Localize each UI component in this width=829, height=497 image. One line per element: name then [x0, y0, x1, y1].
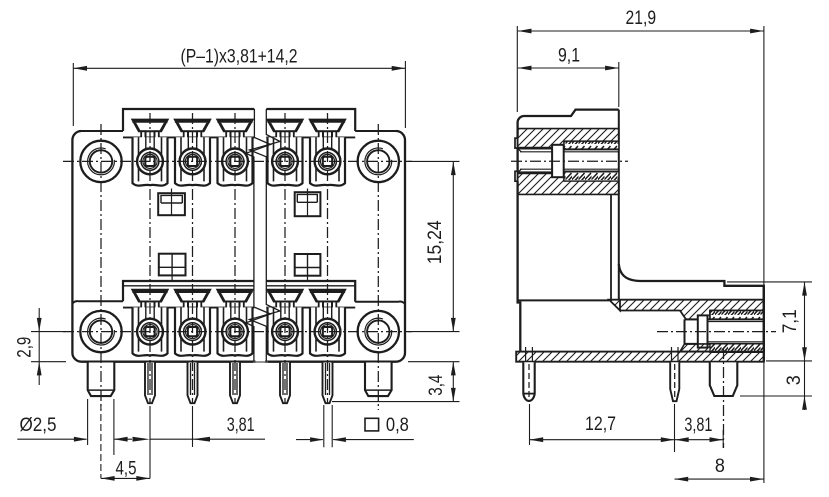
svg-text:8: 8	[715, 455, 725, 477]
front body outline	[72, 131, 405, 362]
side center lines	[511, 161, 776, 448]
mounting hole top left	[80, 141, 121, 182]
dimension 15,24	[408, 161, 460, 331]
break gap white	[256, 100, 266, 390]
side body main outline	[518, 110, 619, 122]
keying rectangle lower left	[159, 254, 186, 281]
upper contact box	[552, 145, 564, 177]
svg-text:Ø2,5: Ø2,5	[20, 414, 57, 436]
terminal pole 3 bottom row	[217, 290, 252, 356]
upper bore sleeve lines	[520, 152, 619, 169]
dimension 3,81 side	[675, 414, 723, 448]
svg-text:0,8: 0,8	[386, 414, 409, 436]
dimension 3,4	[332, 362, 460, 402]
terminal pole 2 top row	[175, 120, 210, 186]
terminal pole 1 top row	[132, 120, 167, 186]
bend curve to arm	[619, 264, 764, 352]
flange top edge line	[79, 130, 398, 132]
solder pin 4	[280, 363, 290, 404]
raised center section top row	[123, 109, 355, 131]
terminal pole 2 bottom row	[175, 290, 210, 356]
svg-text:12,7: 12,7	[585, 413, 616, 435]
solder pin 5	[323, 363, 333, 404]
svg-text:2,9: 2,9	[13, 337, 35, 358]
dimension (P-1)x3,81+14,2	[73, 45, 405, 128]
keying rectangle lower right	[295, 254, 321, 281]
solder pin 2	[188, 363, 198, 404]
upper socket hatch bottom	[518, 173, 619, 194]
arm contact box	[698, 315, 708, 347]
dimension 21,9	[517, 7, 764, 483]
upper thread band	[564, 141, 619, 149]
dimension square 0,8	[296, 405, 414, 447]
svg-text:3,81: 3,81	[684, 414, 712, 436]
mounting peg right	[365, 363, 392, 397]
dimension 12,7	[530, 404, 675, 452]
dimension O2,5	[17, 399, 132, 455]
terminal pole 1 bottom row	[132, 290, 167, 356]
pole body top line row1	[123, 136, 355, 138]
svg-text:9,1: 9,1	[558, 44, 580, 66]
left mating face	[518, 122, 521, 352]
ledge line	[518, 299, 609, 301]
arm right edge	[763, 286, 765, 362]
arm thread top	[710, 311, 764, 320]
inner wall	[610, 194, 612, 299]
left face tabs	[515, 138, 518, 148]
bottom edge thin connector across break	[253, 361, 268, 363]
pole body top line row2	[123, 307, 355, 309]
side peg	[710, 362, 738, 396]
break line left	[246, 109, 271, 362]
svg-text:3,81: 3,81	[227, 414, 255, 436]
svg-text:15,24: 15,24	[424, 220, 446, 264]
arm hatch top	[609, 300, 764, 320]
arm bore edges	[685, 319, 764, 344]
mounting hole bottom right	[358, 311, 399, 352]
svg-text:3: 3	[783, 375, 805, 385]
dimension 9,1	[518, 44, 619, 107]
keying rectangle upper right	[295, 189, 321, 217]
svg-text:4,5: 4,5	[116, 457, 137, 479]
center lines front view	[63, 113, 412, 410]
solder pin 1	[145, 363, 155, 404]
arm hatch bottom	[680, 344, 712, 352]
svg-text:7,1: 7,1	[779, 309, 801, 333]
upper bore entry chamfers	[518, 149, 522, 172]
upper socket hatch top	[518, 129, 619, 148]
dimension 8	[675, 455, 764, 482]
svg-text:21,9: 21,9	[626, 7, 657, 29]
break line right	[250, 109, 281, 362]
terminal pole 4 top row	[267, 120, 302, 186]
base plate	[516, 352, 764, 362]
arm mouth	[684, 319, 686, 344]
terminal pole 4 bottom row	[267, 290, 302, 356]
dimension 3 side	[740, 361, 812, 410]
svg-text:3,4: 3,4	[425, 375, 447, 396]
upper thread band bottom	[564, 172, 619, 182]
side pin row1	[523, 347, 534, 401]
arm bore sleeve lines	[708, 322, 764, 342]
dimension 2,9	[13, 308, 66, 385]
solder pin 3	[230, 363, 240, 404]
svg-text:(P–1)x3,81+14,2: (P–1)x3,81+14,2	[181, 45, 298, 67]
arm thread bottom	[710, 344, 764, 352]
lower flange ledge	[72, 301, 405, 304]
lower center section top lines	[123, 281, 355, 302]
dimension 3,81 front	[133, 406, 266, 447]
terminal pole 3 top row	[217, 120, 252, 186]
mounting peg left	[88, 363, 115, 397]
upper bore edges	[518, 149, 619, 173]
side pin row2	[670, 347, 679, 401]
mounting hole bottom left	[80, 311, 121, 352]
dimension 4,5	[101, 404, 150, 481]
dimension 7,1	[727, 282, 812, 361]
mounting hole top right	[358, 141, 399, 182]
keying rectangle upper left	[158, 189, 185, 216]
terminal pole 5 bottom row	[310, 290, 345, 356]
terminal pole 5 top row	[310, 120, 345, 186]
